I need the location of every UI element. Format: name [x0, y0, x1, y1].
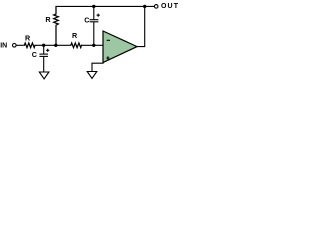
- wire op-amp output up to rail: [137, 6, 145, 46]
- wire top feedback rail: [55, 5, 154, 7]
- resistor R1 (series input): [23, 43, 36, 48]
- op-amp U1: [103, 31, 137, 63]
- node E junction dot (rail to output): [143, 5, 146, 8]
- svg-text:C: C: [32, 50, 37, 59]
- node D junction dot (rail to C2): [92, 5, 95, 8]
- wire non-inverting input to ground: [92, 63, 104, 71]
- node C junction dot (cap C2 to inverting input): [92, 44, 95, 47]
- wire input stub: [16, 44, 23, 46]
- svg-text:R: R: [25, 33, 31, 42]
- ground (below op-amp non-inverting input): [87, 72, 97, 79]
- svg-text:R: R: [72, 31, 78, 40]
- svg-text:C: C: [84, 16, 89, 25]
- resistor R3 (vertical feedback): [54, 6, 59, 45]
- output terminal (open circle): [154, 5, 158, 9]
- wire R1 to R2: [36, 44, 70, 46]
- node B junction dot (feedback R tap): [54, 44, 57, 47]
- wire R2 to op-amp inverting input: [82, 44, 103, 46]
- resistor R2 (series to inverting input): [70, 43, 83, 48]
- svg-text:OUT: OUT: [161, 3, 179, 10]
- node A junction dot (cap C1 tap): [42, 44, 45, 47]
- svg-text:IN: IN: [0, 42, 7, 49]
- ground (below C1): [39, 72, 49, 79]
- capacitor C2 (output rail to inverting input, polarized): [90, 6, 100, 45]
- capacitor C1 (node A to ground, polarized): [39, 45, 49, 72]
- input terminal (open circle): [13, 44, 17, 48]
- svg-text:R: R: [45, 15, 51, 24]
